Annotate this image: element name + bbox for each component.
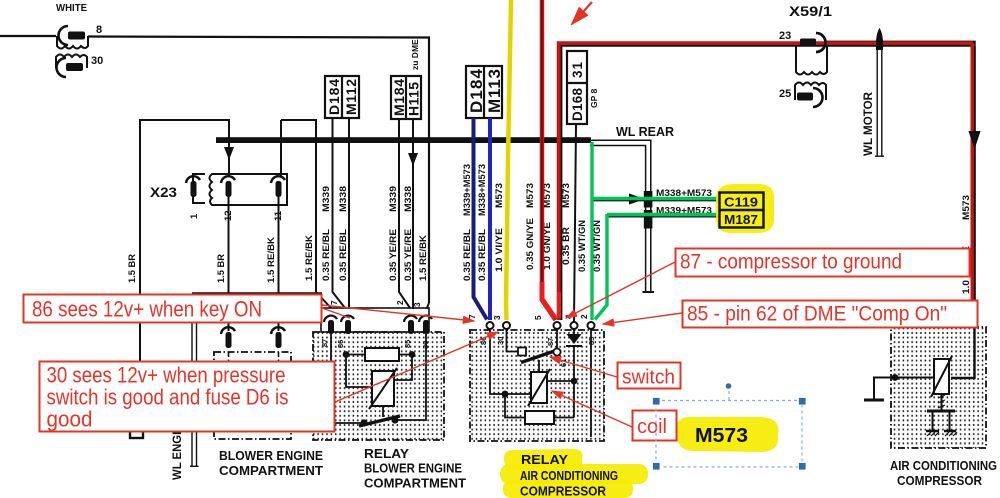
svg-text:1.5 RE/BK: 1.5 RE/BK [304,234,314,281]
junction teardrop at WL MOTOR tap [876,28,883,50]
wire pin12 down to blower box [228,197,230,331]
connector terminal 8 [57,26,88,49]
svg-text:3: 3 [413,302,422,307]
AC relay pin circles redraw [487,322,595,329]
selection rotate handle [725,383,731,389]
pin 85 internal wire [590,329,592,437]
svg-text:coil: coil [637,416,667,438]
connector hook above blower box right [271,327,285,348]
svg-text:M338: M338 [403,186,413,212]
blower relay box [313,332,444,440]
dark red wire 1.0 GN/YE with corner [559,44,973,321]
pin30 side wire [398,334,426,420]
svg-text:AIR CONDITIONING: AIR CONDITIONING [890,459,997,473]
junction dot left [343,351,350,358]
svg-text:0.35 RE/BL: 0.35 RE/BL [477,228,487,281]
svg-text:87 - compressor to ground: 87 - compressor to ground [680,251,902,274]
wire to resistor [505,394,525,418]
ground symbol [864,399,884,402]
WL MOTOR wire top taper [876,28,883,48]
dark red wire 0.35 GN/YE [542,0,556,320]
svg-text:M338+M573: M338+M573 [477,164,487,216]
svg-text:M113: M113 [485,69,504,113]
svg-text:M339: M339 [388,186,398,212]
AC relay coil [531,372,547,403]
svg-text:30: 30 [91,55,103,67]
arrow on green M338 wire [629,194,645,205]
svg-text:M573: M573 [525,183,535,208]
svg-text:BLOWER ENGINE: BLOWER ENGINE [219,449,323,463]
coil top wire [538,360,540,372]
svg-text:0.35 BR: 0.35 BR [561,226,571,265]
wire 0.35 RE/BL M338 from D184/M112 [348,118,350,309]
arrow down on pin12 wire [224,147,234,160]
svg-text:BLOWER ENGINE: BLOWER ENGINE [364,462,462,476]
svg-text:good: good [47,407,93,432]
pin 30 internal wire [507,329,519,352]
svg-text:D184: D184 [326,79,342,115]
svg-text:AIR CONDITIONING: AIR CONDITIONING [520,469,618,483]
svg-text:RELAY: RELAY [521,453,569,467]
annotation line 86 box to blower pin 86 [322,308,350,318]
svg-text:7: 7 [330,300,339,305]
bright red trace highlight right red wire [557,292,561,318]
svg-text:2: 2 [396,300,405,305]
svg-text:zu DME: zu DME [410,39,420,70]
AC compressor box [891,327,986,448]
wire to coil left [346,355,372,388]
leg feet hatches [926,430,956,432]
svg-text:M573: M573 [695,425,748,447]
annotation arrow top [572,2,592,24]
AC relay pin circle 85 [588,322,595,329]
wire 1.5 RE/BK jog into relay [316,292,331,308]
svg-text:H115: H115 [406,82,422,116]
X23 pin11 hook [271,176,285,197]
terminal end of 1.5 BR wire [130,425,143,438]
connector hook above blower box left [221,327,235,348]
blower relay socket strip [321,308,429,332]
svg-text:85: 85 [403,340,412,348]
blower engine compartment box [214,352,291,439]
annotation line 87 box to AC pin 87 [566,262,675,318]
junction bar green M338 to WL REAR [644,191,653,208]
yellow highlight blob C119/M187 [716,184,774,233]
svg-text:23: 23 [779,30,791,42]
svg-text:1.5 BR: 1.5 BR [127,253,137,283]
relay pin hook 87 [324,316,337,334]
wire 1.5 BR left branch from bus corner [140,120,230,425]
blower relay switch [359,416,400,426]
annotation line coil box to coil [552,391,632,427]
svg-text:D168: D168 [570,88,585,121]
arrow on right red wire [969,131,981,149]
X23 pin1 hook [186,176,200,197]
svg-text:0.35 GN/YE: 0.35 GN/YE [525,218,535,270]
svg-text:COMPRESSOR: COMPRESSOR [897,474,982,488]
wire X23 pin11 riser [281,120,316,292]
connector X23 housing 12/11 wavy joint [210,174,288,205]
svg-text:WL MOTOR: WL MOTOR [863,91,875,156]
svg-text:COMPARTMENT: COMPARTMENT [364,477,466,491]
svg-text:M187: M187 [724,212,758,227]
relay pin hook 86 [341,316,354,334]
wire top-left horizontal terminal 8 feed [0,35,56,37]
green wire M339+M573 [595,214,718,320]
wire 0.35 RE/BL M339 from D184/M112 [333,118,346,308]
svg-text:2: 2 [580,314,589,319]
connector X59 pin25 housing [795,83,826,101]
annotation box 30 sees 12v+ [40,362,335,432]
wire to coil right [394,355,412,381]
AC relay pin circle 86 [487,322,494,329]
junction dot [571,378,578,385]
svg-text:5: 5 [534,315,543,320]
connector terminal 30 [56,55,87,78]
yellow wire 1.0 VI/YE [506,0,511,320]
X23 pin12 hook [221,176,235,197]
svg-text:0.35 YE/RE: 0.35 YE/RE [388,229,398,281]
svg-text:25: 25 [779,88,791,100]
AC relay pin circle 30 [503,322,510,329]
svg-text:7: 7 [468,314,477,319]
svg-text:switch: switch [622,367,675,389]
svg-text:D184: D184 [467,68,486,113]
wire resistor to diode leg [554,345,574,418]
svg-text:GP 8: GP 8 [589,89,599,108]
svg-text:87: 87 [546,338,555,346]
svg-text:COMPRESSOR: COMPRESSOR [520,485,606,498]
AC relay 86 wire [490,329,531,394]
connector box D184/M113 [466,66,502,118]
wire 0.35 YE/RE M338 from M184/H115 with arrow [412,119,414,309]
svg-text:3: 3 [493,315,502,320]
blue wire 0.35 RE/BL M339+M573 [474,118,488,320]
svg-text:COMPARTMENT: COMPARTMENT [219,464,323,478]
svg-text:M338+M573: M338+M573 [656,188,712,198]
junction dot [502,391,509,398]
svg-text:30: 30 [496,337,505,345]
svg-text:1.5 RE/BK: 1.5 RE/BK [266,236,276,283]
arrow on right vertical wire [969,131,981,149]
WL REAR outline wire [590,140,651,292]
selection rectangle [656,401,802,468]
yellow highlight M573 [676,417,779,452]
svg-text:1.5 RE/BK: 1.5 RE/BK [418,234,428,281]
svg-text:85 - pin 62 of DME "Comp On": 85 - pin 62 of DME "Comp On" [687,303,947,326]
AC relay box [470,330,604,441]
svg-text:1.5 BR: 1.5 BR [216,253,226,283]
annotation box 85 pin 62 of DME [683,301,978,328]
svg-text:0.35 WT/GN: 0.35 WT/GN [577,220,587,272]
annotation line 85 box to AC pin 85 [603,313,682,324]
connector box C119/M187 [720,193,764,228]
annotation box switch [618,363,681,389]
svg-text:1.0 VI/YE: 1.0 VI/YE [494,228,504,272]
stub wires inside blower box [229,352,279,377]
wire from terminal 8 to corner x=429 [88,37,429,304]
relay pin hook 30 [419,316,432,334]
annotation line 86 box to AC pin 86 [322,305,474,321]
svg-text:86: 86 [336,340,345,348]
svg-text:0.35 RE/BL: 0.35 RE/BL [462,228,472,281]
connector box M184/H115 [391,76,421,119]
blue wire 0.35 RE/BL M338+M573 [488,118,492,320]
green wire M338 black underlay [592,200,720,202]
wire from D168 down to AC relay diode pin [574,124,576,322]
WL ENGINE wire outline [190,293,322,466]
compressor legs [933,411,950,431]
selection handle bottom-left [653,463,661,471]
svg-text:31: 31 [570,62,585,78]
blower relay resistor [365,348,399,361]
annotation box 87 compressor to ground [676,249,970,277]
relay pin hook 85 [404,316,417,334]
selection handle top-right [799,398,807,406]
X59 pin23 pin redraw over red wire [800,39,816,47]
annotation line 30 box to AC pin 30 [335,332,498,402]
selection handle top-left [653,398,661,406]
svg-text:M338: M338 [338,186,348,212]
WL MOTOR wire outline [875,45,884,156]
svg-text:M573: M573 [494,183,504,208]
switch blade [521,351,556,363]
connector box D184/M112 [325,76,359,118]
svg-text:87: 87 [320,339,329,347]
wire 0.35 YE/RE M339 from M184/H115 [399,119,410,308]
svg-text:WHITE: WHITE [56,2,87,14]
compressor solenoid [934,359,949,394]
svg-text:0.35 RE/BL: 0.35 RE/BL [321,228,331,281]
blower relay internal bridge wire [346,354,412,356]
junction bar green M339 to WL REAR [644,210,653,229]
green wire M338+M573 [592,142,718,320]
svg-text:X59/1: X59/1 [789,4,833,19]
svg-text:1: 1 [189,213,200,219]
connector X23 pin1 housing [193,174,205,203]
annotation box coil [633,411,677,441]
selection handle bottom-right [799,463,807,471]
wire X23 pin12 vertical with bus crossing [228,120,230,176]
diode [567,334,582,344]
AC relay pin circle diode [571,322,578,329]
svg-text:M573: M573 [961,195,971,220]
yellow highlight RELAY AIR CONDITIONING COMPRESSOR [504,449,583,469]
top wire from X59 pin23 to right corner (black part) [825,42,975,378]
green wire M339 black underlay [607,216,720,218]
svg-text:0.35 YE/RE: 0.35 YE/RE [403,229,413,281]
switch pivot [553,348,560,355]
svg-text:C119: C119 [724,195,758,210]
svg-text:86 sees 12v+ when key ON: 86 sees 12v+ when key ON [32,297,262,322]
svg-text:M339+M573: M339+M573 [462,164,472,216]
annotation box 86 sees 12v+ [24,295,322,323]
main bus bar [216,137,591,143]
junction dot [892,374,899,381]
svg-text:8: 8 [96,24,102,36]
annotation line switch box to switch [550,357,617,377]
X59 pin25 pin [797,93,813,101]
connector box D168/31 [567,51,587,124]
junction dot right [409,351,416,358]
wire pin11 down to blower box [278,197,280,331]
svg-text:X23: X23 [150,185,178,200]
X59 pin23 pin [800,39,816,47]
blower relay coil [372,371,394,406]
dark red right vertical to compressor [971,44,975,327]
bright red trace highlight left red wire [542,282,555,318]
compressor coil hatched link [941,394,943,410]
pin 87 internal wire [556,329,558,349]
wire solenoid to ground [874,378,934,400]
coil to junction wire [547,380,574,382]
svg-text:M339: M339 [321,186,331,212]
pin87 side wire [331,334,361,423]
svg-text:RELAY: RELAY [364,447,410,461]
connector X59 pin23 housing [796,46,827,75]
svg-text:WL REAR: WL REAR [616,125,674,139]
compressor T bar [927,410,955,413]
switch fixed contact [518,348,526,356]
coil to switch wire [382,406,384,417]
svg-text:M573: M573 [561,183,571,208]
svg-text:M112: M112 [343,79,359,115]
AC relay resistor [525,411,554,424]
AC relay pin circle 87 [554,322,561,329]
svg-text:0.35 RE/BL: 0.35 RE/BL [338,228,348,281]
